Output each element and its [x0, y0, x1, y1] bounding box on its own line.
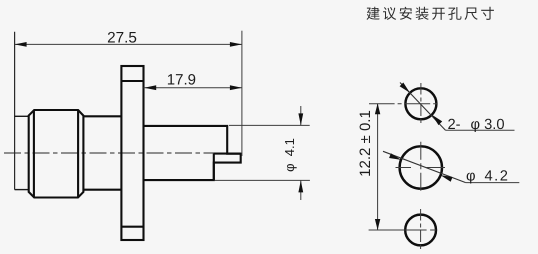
middle hole crosshair — [396, 142, 447, 192]
svg-text:17.9: 17.9 — [167, 71, 196, 88]
bottom hole crosshair — [369, 209, 438, 251]
centerline (side view axis) — [4, 152, 223, 154]
hex nut — [29, 110, 84, 198]
svg-text:φ 4.1: φ 4.1 — [282, 138, 297, 172]
svg-text:2-: 2- — [448, 117, 461, 133]
title: suggested mounting hole dimensions (CJK as paths) — [367, 7, 494, 20]
dimension 12.2 +/- 0.1 — [377, 104, 379, 230]
hole pattern: top hole phi3.0 — [405, 88, 436, 119]
leader phi4.2 — [383, 151, 466, 182]
flange — [121, 66, 143, 240]
dimension 17.9 — [144, 87, 242, 89]
svg-text:12.2 ± 0.1: 12.2 ± 0.1 — [357, 110, 374, 177]
dimension phi 4.1 — [215, 106, 310, 200]
front stub bottom edge — [15, 189, 29, 191]
svg-text:27.5: 27.5 — [107, 29, 137, 46]
svg-text:φ: φ — [466, 169, 476, 185]
svg-text:4.2: 4.2 — [485, 169, 510, 185]
svg-text:φ 3.0: φ 3.0 — [471, 117, 505, 133]
front face / extension line left — [14, 32, 16, 190]
front stub top edge — [15, 115, 29, 117]
hole pattern: middle hole phi4.2 — [400, 146, 442, 188]
top hole crosshair — [369, 83, 438, 125]
hole pattern: bottom hole phi3.0 — [405, 215, 436, 246]
dimension 27.5 — [15, 31, 242, 156]
rear body with solder tab — [144, 126, 241, 180]
leader 2- phi3.0 — [400, 83, 446, 131]
mid cylinder — [83, 116, 121, 189]
